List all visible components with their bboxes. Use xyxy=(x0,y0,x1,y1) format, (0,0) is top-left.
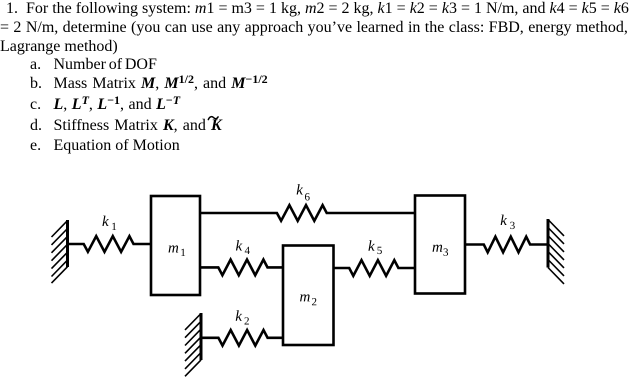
spring k4 xyxy=(200,260,283,276)
label k6 xyxy=(297,184,310,200)
right wall xyxy=(548,219,564,284)
spring k3 xyxy=(465,237,548,253)
mass m3 xyxy=(415,196,465,294)
label k1 xyxy=(102,216,116,230)
left wall xyxy=(52,220,68,283)
spring k1 xyxy=(68,236,152,252)
bottom wall xyxy=(185,313,201,376)
mass m1 label xyxy=(169,245,186,256)
mass m2 label xyxy=(300,294,316,305)
label k5 xyxy=(368,240,381,254)
spring k6 (with connecting wires m1 to m3) xyxy=(200,205,415,221)
tilde accent over K in item d xyxy=(208,117,218,120)
spring k2 xyxy=(201,330,283,346)
label k2 xyxy=(236,310,249,324)
mass m2 xyxy=(283,246,334,346)
label k3 xyxy=(501,215,515,230)
label k4 xyxy=(236,240,250,254)
mass m3 label xyxy=(433,245,449,256)
mass m1 xyxy=(151,196,200,295)
spring k5 xyxy=(334,260,416,276)
